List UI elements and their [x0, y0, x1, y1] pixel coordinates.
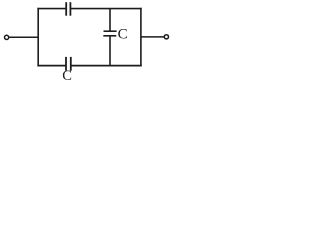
capacitor top (series, upper branch): [66, 2, 70, 16]
capacitor C (middle shunt branch): [103, 31, 116, 36]
left terminal: [5, 35, 9, 39]
wire: left lead from terminal to left node: [9, 36, 39, 38]
svg-text:C: C: [118, 26, 128, 42]
capacitor C (series, lower branch): [66, 57, 71, 71]
wire: middle branch upper segment: [109, 9, 111, 32]
wire: right vertical branch: [140, 8, 142, 67]
right terminal: [164, 35, 168, 39]
wire: bottom wire, left segment: [37, 65, 66, 67]
wire: bottom wire, right segment: [71, 65, 142, 67]
wire: top wire, right segment: [71, 8, 142, 10]
wire: right lead to terminal: [141, 36, 165, 38]
svg-text:C: C: [62, 68, 72, 81]
wire: top wire, left segment: [37, 8, 66, 10]
wire: left vertical branch: [37, 8, 39, 67]
wire: middle branch lower segment: [109, 36, 111, 67]
